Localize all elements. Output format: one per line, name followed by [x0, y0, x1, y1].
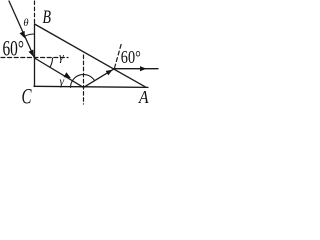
svg-text:60°: 60° [3, 36, 25, 61]
arrowhead on reflected ray QR [106, 70, 113, 76]
svg-text:60°: 60° [121, 47, 141, 67]
arrowhead on refracted ray PQ [64, 72, 71, 78]
refracted ray PQ [35, 58, 84, 87]
dashed normal at Q (vertical) [83, 55, 85, 104]
wire hypotenuse BA [35, 24, 146, 87]
svg-text:γ: γ [60, 76, 65, 88]
svg-text:A: A [138, 87, 149, 107]
dashed normal at R (tilted) [115, 43, 122, 68]
exit ray (horizontal, to the right) [115, 68, 159, 70]
svg-text:B: B [43, 7, 52, 28]
arc at Q from base-left over to reflected ray [71, 74, 95, 87]
wire side BC (vertical face of prism) [34, 24, 36, 87]
arc angle gamma1 at P [50, 58, 53, 67]
wire base CA [34, 86, 148, 87]
arrowhead on incident ray (at P) [29, 50, 34, 58]
arrowhead on incident ray (mid, at theta arc end) [20, 31, 25, 39]
dashed extension above B [34, 1, 36, 23]
svg-text:θ: θ [23, 18, 28, 29]
incident ray [9, 1, 35, 58]
dashed normal at P (horizontal) [1, 57, 68, 59]
reflected ray QR [84, 69, 115, 88]
arrowhead on exit ray [140, 66, 147, 71]
background [0, 0, 161, 109]
svg-text:γ: γ [59, 49, 64, 63]
svg-text:C: C [22, 84, 32, 109]
arc angle theta at P [25, 34, 35, 36]
